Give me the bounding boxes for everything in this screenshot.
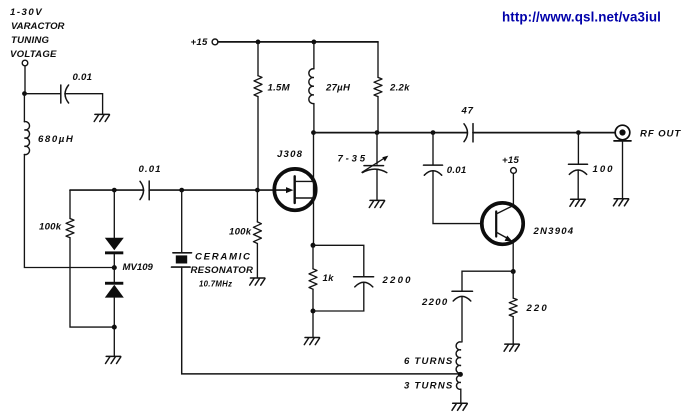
capacitor C2 0.01 xyxy=(140,181,149,200)
wire L1 to varactor mid node xyxy=(24,155,112,268)
wire top rail xyxy=(218,41,378,43)
node diode stack bottom junction xyxy=(112,325,117,330)
terminal tuning-voltage input xyxy=(22,60,28,66)
svg-text:MV109: MV109 xyxy=(123,262,154,273)
wire R2 top lead xyxy=(257,42,259,76)
svg-text:0.01: 0.01 xyxy=(73,72,93,83)
capacitor C8 100 xyxy=(569,164,588,174)
capacitor C5 0.01 xyxy=(424,165,443,175)
capacitor C4 2200 xyxy=(354,277,374,287)
inductor L1 680uH xyxy=(24,122,29,155)
wire emitter lead xyxy=(512,241,513,272)
svg-text:2.2k: 2.2k xyxy=(389,83,410,94)
svg-text:0.01: 0.01 xyxy=(139,164,162,175)
wire varactor top lead xyxy=(113,190,115,238)
wire RF OUT to ground xyxy=(622,141,624,198)
resistor R6 220 xyxy=(509,298,517,317)
wire D2 to ground xyxy=(113,298,115,356)
ground G9 xyxy=(452,403,467,410)
resistor R5 1k xyxy=(309,269,317,289)
ground G5 xyxy=(304,338,319,345)
wire collector lead xyxy=(512,173,514,205)
op J308 fet U1 xyxy=(274,169,315,210)
ground G6 xyxy=(570,199,585,206)
wire R4 bottom lead xyxy=(377,97,379,133)
wire trimmer top lead xyxy=(376,133,378,165)
wire R5 bottom lead xyxy=(312,289,314,337)
wire C4 bottom to 1k bottom xyxy=(313,283,364,312)
terminal +15 first xyxy=(212,39,218,45)
svg-text:+15: +15 xyxy=(191,37,208,48)
ground G1 xyxy=(94,114,109,121)
wire C8 to ground xyxy=(577,170,579,199)
svg-text:100: 100 xyxy=(593,164,615,175)
svg-text:+15: +15 xyxy=(502,155,519,166)
wire trimmer to ground xyxy=(376,170,378,200)
svg-text:27µH: 27µH xyxy=(325,83,351,94)
node rail L2 top xyxy=(312,40,317,45)
svg-text:100k: 100k xyxy=(39,222,62,233)
wire lower rail xyxy=(314,132,467,134)
wire resonator top lead xyxy=(181,190,183,252)
svg-text:7-35: 7-35 xyxy=(338,153,368,164)
label tuning voltage xyxy=(10,7,65,60)
wire rail right of C6 xyxy=(473,132,615,134)
node gate line junction xyxy=(255,188,260,193)
ground G2 xyxy=(106,356,121,363)
wire L2 bottom lead xyxy=(313,104,315,133)
node 1k bottom junction xyxy=(311,309,316,314)
svg-text:2200: 2200 xyxy=(421,297,449,308)
inductor L3 6 turns xyxy=(456,342,461,373)
svg-text:10.7MHz: 10.7MHz xyxy=(199,279,232,288)
svg-text:1k: 1k xyxy=(323,273,335,284)
ground G7 xyxy=(613,199,628,206)
svg-text:0.01: 0.01 xyxy=(447,165,467,176)
resistor R4 2.2k xyxy=(374,77,382,96)
node varactor top junction xyxy=(112,188,117,193)
capacitor C7 2200 xyxy=(452,291,473,301)
wire R6 top lead xyxy=(512,272,514,299)
wire gate line right of C2 xyxy=(149,189,287,191)
svg-text:1-30V: 1-30V xyxy=(10,7,43,18)
resistor R3 100k xyxy=(253,222,261,244)
wire C5 top lead xyxy=(432,133,434,165)
ground G3 xyxy=(250,278,265,285)
wire L2 top lead xyxy=(313,42,315,69)
wire R1 top lead xyxy=(69,190,71,218)
wire node A to C1 xyxy=(25,93,61,95)
resistor R2 1.5M xyxy=(254,76,262,97)
wire between diodes xyxy=(113,254,115,283)
svg-text:CERAMIC: CERAMIC xyxy=(195,252,252,263)
wire rail corner to R4 xyxy=(377,42,379,78)
node drain rail junction xyxy=(311,130,316,135)
node varactor mid junction xyxy=(112,265,117,270)
wire R3 to ground xyxy=(256,244,258,278)
svg-text:6 TURNS: 6 TURNS xyxy=(404,356,453,367)
node emitter junction xyxy=(511,269,516,274)
wire R1 bottom to diode stack bottom node xyxy=(70,238,113,327)
transistor Q1 2N3904 xyxy=(482,203,523,244)
svg-text:47: 47 xyxy=(461,105,474,116)
inductor L3 3 turns xyxy=(456,376,460,390)
wire C5 to base xyxy=(433,171,482,224)
wire C1 to ground xyxy=(65,94,103,114)
wire C7 bottom to coil xyxy=(461,297,463,343)
varactor D1 MV109 xyxy=(105,238,124,254)
svg-text:680µH: 680µH xyxy=(38,134,74,145)
node A junction xyxy=(22,91,27,96)
svg-text:VARACTOR: VARACTOR xyxy=(11,21,65,32)
wire emitter node to C7 xyxy=(462,271,513,291)
resistor R1 100k xyxy=(66,219,74,238)
wire C8 top lead xyxy=(577,133,579,165)
node rail C5 junction xyxy=(431,130,436,135)
capacitor C1 0.01 xyxy=(61,85,69,103)
wire R6 to ground xyxy=(512,317,514,344)
wire source node to C4 xyxy=(313,245,364,276)
ground G4 xyxy=(369,200,384,207)
capacitor C3 trimmer 7-35 xyxy=(362,158,387,173)
wire node A down to L1 xyxy=(23,94,25,122)
resonator X1 ceramic xyxy=(172,253,192,267)
node rail 2.2k / 7-35 junction xyxy=(375,130,380,135)
svg-text:J308: J308 xyxy=(277,149,303,160)
wire drain-source column xyxy=(313,133,315,246)
svg-text:2200: 2200 xyxy=(382,275,413,286)
wire gate line left corner to R1 xyxy=(70,189,144,191)
node resonator top junction xyxy=(179,188,184,193)
svg-text:VOLTAGE: VOLTAGE xyxy=(10,49,57,60)
svg-text:1.5M: 1.5M xyxy=(268,83,291,94)
varactor D2 MV109 xyxy=(105,282,124,298)
wire R2 bottom to gate line xyxy=(257,97,259,191)
svg-text:3 TURNS: 3 TURNS xyxy=(404,381,453,392)
wire terminal to node A xyxy=(24,66,26,91)
wire coil to ground xyxy=(460,389,462,403)
svg-text:100k: 100k xyxy=(229,227,252,238)
capacitor C6 47 xyxy=(464,124,473,142)
svg-text:220: 220 xyxy=(526,303,549,314)
svg-text:http://www.qsl.net/va3iul: http://www.qsl.net/va3iul xyxy=(502,9,661,24)
wire resonator bottom to tap xyxy=(182,267,459,374)
svg-text:RESONATOR: RESONATOR xyxy=(191,265,254,276)
wire R5 top lead xyxy=(312,245,314,268)
wire R3 top lead xyxy=(256,190,258,222)
node source junction xyxy=(311,243,316,248)
terminal +15 second xyxy=(511,168,517,174)
node coil tap xyxy=(458,372,463,377)
label ceramic resonator xyxy=(191,252,254,289)
node rail C8 junction xyxy=(576,130,581,135)
svg-text:TUNING: TUNING xyxy=(11,35,50,46)
svg-text:2N3904: 2N3904 xyxy=(533,226,575,237)
svg-text:RF OUT: RF OUT xyxy=(640,128,681,139)
inductor L2 27uH xyxy=(309,69,314,104)
connector RF OUT xyxy=(614,125,631,141)
ground G8 xyxy=(504,344,519,351)
node rail R2 top xyxy=(256,40,261,45)
